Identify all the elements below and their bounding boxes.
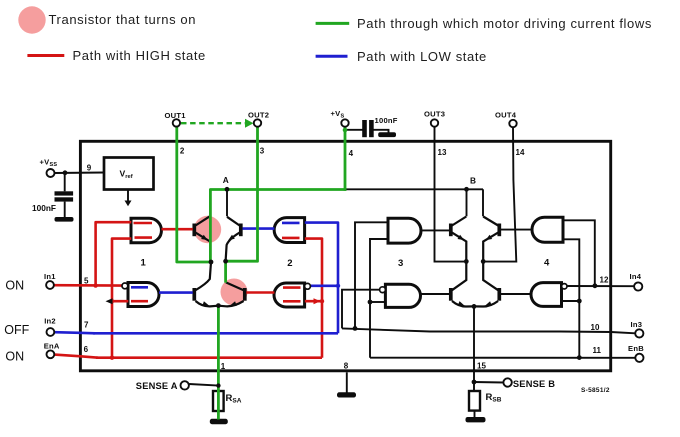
svg-text:15: 15: [477, 362, 486, 371]
svg-text:1: 1: [141, 258, 147, 269]
svg-text:In4: In4: [630, 272, 642, 281]
svg-text:B: B: [470, 176, 476, 186]
svg-text:A: A: [223, 175, 229, 185]
svg-text:2: 2: [180, 147, 185, 156]
svg-text:OUT2: OUT2: [248, 111, 269, 120]
svg-text:7: 7: [84, 321, 89, 330]
svg-text:11: 11: [593, 346, 602, 355]
svg-text:OUT1: OUT1: [165, 111, 187, 120]
svg-text:S-5851/2: S-5851/2: [581, 387, 610, 394]
svg-text:ON: ON: [5, 349, 24, 363]
svg-text:SENSE B: SENSE B: [513, 379, 555, 389]
svg-text:EnA: EnA: [44, 342, 60, 351]
svg-text:In1: In1: [44, 272, 56, 281]
svg-text:3: 3: [260, 147, 265, 156]
svg-text:In2: In2: [44, 317, 56, 326]
svg-text:OUT4: OUT4: [495, 111, 517, 120]
svg-text:12: 12: [600, 276, 609, 285]
svg-text:ON: ON: [5, 278, 24, 292]
svg-text:4: 4: [349, 149, 354, 158]
svg-text:OFF: OFF: [4, 323, 29, 337]
svg-text:Path with LOW state: Path with LOW state: [357, 49, 487, 64]
svg-text:100nF: 100nF: [32, 203, 56, 213]
svg-text:10: 10: [591, 323, 600, 332]
svg-text:OUT3: OUT3: [424, 110, 445, 119]
svg-text:SENSE A: SENSE A: [136, 381, 178, 391]
svg-text:Transistor that turns on: Transistor that turns on: [49, 12, 197, 27]
svg-text:100nF: 100nF: [375, 116, 398, 125]
svg-text:3: 3: [398, 258, 403, 269]
svg-text:14: 14: [516, 148, 525, 157]
svg-text:13: 13: [438, 148, 447, 157]
svg-text:8: 8: [344, 362, 349, 371]
svg-text:1: 1: [221, 362, 226, 371]
svg-text:4: 4: [544, 258, 550, 269]
svg-text:5: 5: [84, 277, 89, 286]
svg-text:EnB: EnB: [628, 344, 644, 353]
svg-text:In3: In3: [631, 320, 643, 329]
svg-text:Path through which motor drivi: Path through which motor driving current…: [357, 16, 652, 31]
svg-text:Path with HIGH state: Path with HIGH state: [73, 48, 206, 63]
svg-text:2: 2: [287, 258, 292, 269]
svg-text:6: 6: [84, 345, 89, 354]
svg-text:9: 9: [87, 163, 92, 172]
